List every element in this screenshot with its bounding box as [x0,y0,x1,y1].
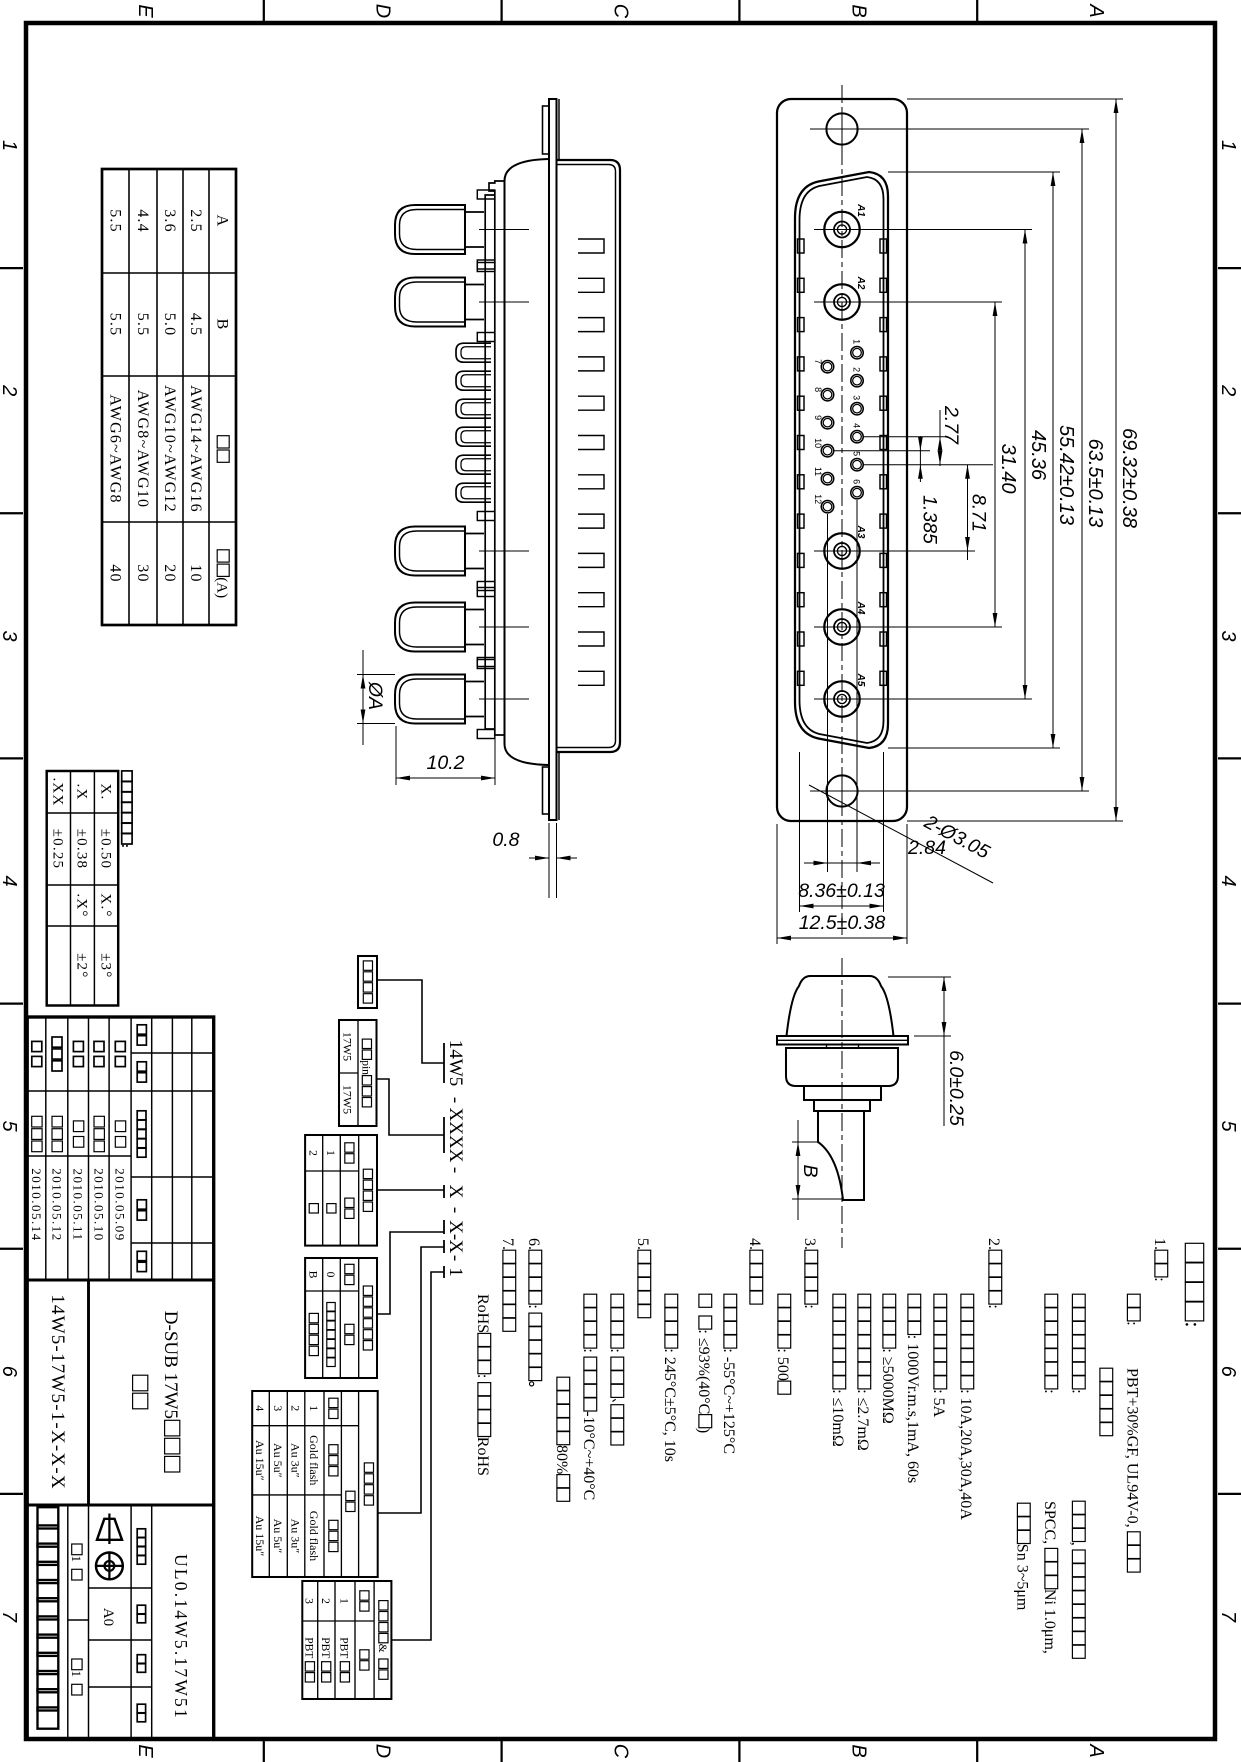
leader plating code [378,1247,444,1513]
svg-text:5.5: 5.5 [107,313,124,337]
svg-text:PBT: PBT [319,1637,331,1658]
dim 2.77 [938,405,962,466]
svg-text:5: 5 [1217,1121,1239,1133]
company name cell [38,1507,59,1729]
coax contact A3 [814,525,870,569]
svg-text:2010.05.14: 2010.05.14 [29,1168,44,1242]
contact detail body [786,1048,898,1111]
ordering code string 14W5 - XXXX - X - X-X- 1 [444,1040,466,1278]
svg-text:AWG8~AWG10: AWG8~AWG10 [134,390,151,509]
svg-text:12.5±0.38: 12.5±0.38 [799,912,886,934]
dim 12.5 [777,824,907,944]
svg-text:-: - [445,1167,466,1173]
svg-text:: 245°C±5°C, 10s: : 245°C±5°C, 10s [661,1348,678,1462]
svg-text:1: 1 [69,1671,84,1678]
small pins row 1-6 [851,339,863,499]
box plating code [252,1391,378,1577]
side view insulator block [485,159,548,765]
leader insulator material [391,1272,444,1640]
svg-text:3.: 3. [801,1238,818,1250]
dimension extension lines front view [833,99,1123,821]
svg-text:-10°C~+40°C: -10°C~+40°C [580,1411,597,1500]
dim 10.2 [396,726,495,785]
solder cup A2 [395,263,529,342]
svg-text:Au 3u″: Au 3u″ [289,1519,303,1554]
svg-text:1.: 1. [1151,1238,1168,1250]
svg-text:2: 2 [1217,384,1239,396]
svg-text:Au 5u″: Au 5u″ [271,1443,285,1478]
svg-text:7: 7 [1217,1611,1239,1623]
svg-text:5.0: 5.0 [161,313,178,337]
svg-text:2: 2 [289,1405,303,1411]
tolerance table [47,771,119,1006]
svg-text:A1: A1 [855,203,866,217]
svg-text:4: 4 [1217,875,1239,886]
side view flange plate [549,99,557,820]
svg-text:Gold flash: Gold flash [307,1511,321,1561]
svg-text:63.5±0.13: 63.5±0.13 [1084,439,1106,528]
svg-text:X.°: X.° [97,893,113,917]
product name cell [89,1280,182,1505]
svg-text:9: 9 [813,415,823,420]
svg-text:1: 1 [307,1405,321,1411]
svg-text:7: 7 [0,1611,20,1623]
svg-text::: : [119,844,134,848]
svg-text:4.4: 4.4 [134,209,151,233]
svg-text:4.5: 4.5 [187,313,204,337]
solder cup A5 [395,660,529,739]
svg-text:: 10A,20A,30A,40A: : 10A,20A,30A,40A [957,1389,974,1520]
svg-text::: : [1069,1389,1086,1393]
svg-text:1: 1 [324,1150,336,1156]
svg-text:12: 12 [813,494,823,504]
svg-text:31.40: 31.40 [997,444,1019,494]
svg-text:X: X [445,1185,466,1199]
svg-text:8: 8 [813,387,823,392]
leader mounting code [377,1232,444,1314]
contact detail mating hat [787,976,894,1036]
svg-text:X: X [445,1240,466,1254]
sheet count row [68,1505,89,1739]
shroud slot marks [798,239,887,685]
svg-text:1: 1 [445,1267,466,1277]
svg-text::: : [580,1348,597,1352]
svg-text::: : [801,1304,818,1308]
dim 69.32±0.38 [1114,99,1140,821]
svg-text:2.5: 2.5 [187,209,204,233]
svg-text:4: 4 [852,423,862,428]
svg-text:3: 3 [271,1405,285,1411]
svg-text:B: B [214,319,231,331]
svg-text:: 500: : 500 [774,1348,791,1380]
svg-text:2.: 2. [985,1238,1002,1250]
svg-text:Sn 3~5μm: Sn 3~5μm [1014,1544,1031,1611]
box series code [358,956,377,1008]
leader series code [377,980,444,1063]
svg-text:17W5: 17W5 [341,1085,355,1114]
svg-text::: : [1151,1277,1168,1281]
coax contact A2 [814,276,870,320]
mounting hole right (2-O3.05) [810,769,874,813]
svg-text:-: - [445,1255,466,1261]
svg-text:): ) [695,1428,712,1433]
svg-text:E: E [134,1744,156,1758]
svg-text:: -55°C~+125°C: : -55°C~+125°C [720,1348,737,1454]
svg-text:5.: 5. [634,1238,651,1250]
svg-text:17W5: 17W5 [341,1032,355,1061]
svg-text:1: 1 [69,1556,84,1563]
svg-text:8.36±0.13: 8.36±0.13 [798,880,885,902]
solder cup A3 [395,512,529,591]
svg-text:1: 1 [852,339,862,344]
svg-text:Ni 1.0μm,: Ni 1.0μm, [1041,1589,1058,1654]
dim 0.8 [492,823,577,898]
svg-text:: ≥5000MΩ: : ≥5000MΩ [879,1348,896,1423]
dim 31.40 [993,302,1019,627]
drawing number cell [152,1505,191,1739]
svg-text:4.: 4. [746,1238,763,1250]
svg-text:-: - [445,1207,466,1213]
svg-text:A2: A2 [855,276,866,290]
svg-text:1.385: 1.385 [919,495,941,544]
svg-text:5: 5 [852,451,862,456]
svg-text:.X°: .X° [74,893,90,917]
svg-text:,: , [1069,1542,1086,1546]
svg-text:: 5A: : 5A [930,1389,947,1417]
small solder cups [456,343,491,502]
svg-text:Au 15u″: Au 15u″ [253,1440,267,1481]
svg-text:11: 11 [813,467,823,476]
small pins row 7-12 [813,359,834,513]
revision table [27,1017,214,1280]
title block outline [27,1017,214,1739]
svg-text:55.42±0.13: 55.42±0.13 [1055,425,1077,525]
box product pin code [339,1020,377,1126]
svg-text:14W5: 14W5 [445,1040,466,1086]
svg-text:5: 5 [0,1121,20,1133]
svg-text:: ≤10mΩ: : ≤10mΩ [829,1389,846,1447]
svg-text:2.77: 2.77 [940,405,962,445]
svg-text:D: D [372,4,394,18]
dim 2.84 [804,500,946,872]
svg-text:10.2: 10.2 [427,752,465,774]
svg-text:B: B [799,1165,821,1178]
svg-text:8.71: 8.71 [968,494,990,532]
svg-text::: : [525,1304,542,1308]
dim 8.36 [798,752,885,912]
dim 63.5±0.13 [1080,129,1106,791]
svg-text:E: E [134,4,156,18]
contact detail flange plate [777,1036,908,1048]
svg-text:0: 0 [324,1272,336,1278]
svg-text:-: - [445,1097,466,1103]
svg-text:±0.25: ±0.25 [50,829,66,869]
dim 45.36 [1023,230,1049,700]
svg-text:Au 5u″: Au 5u″ [271,1519,285,1554]
svg-text:B: B [847,4,869,17]
svg-text:3.6: 3.6 [161,209,178,233]
svg-text:Gold flash: Gold flash [307,1435,321,1485]
contact detail centerline [841,958,843,1248]
svg-text:1: 1 [0,140,20,151]
svg-text:C: C [610,4,632,19]
svg-text:B: B [306,1271,318,1279]
coax contact A5 [814,673,870,717]
svg-text:80%: 80% [553,1445,570,1474]
dim 1.385 [918,436,941,544]
mounting hole left [810,107,874,151]
svg-text:10: 10 [187,564,204,582]
svg-text:2010.05.09: 2010.05.09 [113,1168,128,1242]
svg-text:A: A [214,215,231,228]
D-shroud outer outline [795,172,888,748]
svg-text:Au 3u″: Au 3u″ [289,1443,303,1478]
svg-text:D-SUB 17W5: D-SUB 17W5 [160,1311,181,1419]
svg-text:0.8: 0.8 [492,829,519,851]
svg-text:pin: pin [360,1060,372,1075]
svg-text:2010.05.12: 2010.05.12 [49,1168,64,1242]
svg-text:C: C [610,1744,632,1759]
svg-text:RoHS: RoHS [474,1294,491,1333]
front view centerline [841,85,843,935]
svg-text:: ≤2.7mΩ: : ≤2.7mΩ [854,1389,871,1451]
svg-text:69.32±0.38: 69.32±0.38 [1118,428,1140,528]
svg-text:30: 30 [134,564,151,582]
svg-text:±2°: ±2° [74,953,90,978]
svg-text:D: D [372,1744,394,1758]
svg-text:2010.05.11: 2010.05.11 [71,1168,86,1241]
side view shroud [557,99,621,820]
svg-text:A: A [1085,1743,1107,1757]
tolerance note title [119,771,134,848]
solder cup A4 [395,588,529,667]
svg-text:4: 4 [0,875,20,886]
svg-text:ØA: ØA [364,681,386,710]
coax contact A1 [814,203,870,247]
dim 8.71 [965,465,989,560]
box insulator material [302,1581,391,1699]
leader gender code [377,1189,444,1191]
svg-text:4: 4 [253,1405,267,1411]
svg-text:RoHS: RoHS [474,1437,491,1476]
svg-text:2: 2 [306,1150,318,1156]
svg-text:AWG10~AWG12: AWG10~AWG12 [161,385,178,513]
solder cup A1 [395,190,529,269]
svg-text:AWG6~AWG8: AWG6~AWG8 [107,394,124,503]
front view flange outline [777,99,907,821]
svg-text:PBT: PBT [303,1637,315,1658]
dim B [792,1120,843,1220]
contact detail wire barrel [818,1111,864,1200]
svg-text:&: & [376,1644,388,1653]
svg-text:5.5: 5.5 [107,209,124,233]
svg-text:3: 3 [852,395,862,400]
svg-text::: : [1181,1321,1206,1327]
dim OA [357,650,395,745]
svg-text:PBT+30%GF, UL94V-0,: PBT+30%GF, UL94V-0, [1124,1368,1141,1528]
svg-text::: : [474,1374,491,1378]
svg-text:6: 6 [852,479,862,484]
coax contact A4 [814,601,870,645]
svg-text:±0.50: ±0.50 [97,829,113,869]
svg-text:XXXX: XXXX [445,1108,466,1163]
svg-text:2010.05.10: 2010.05.10 [91,1168,106,1242]
leader product pin code [377,1079,445,1135]
technical requirement notes [474,1238,1205,1658]
svg-text:6.: 6. [525,1238,542,1250]
svg-text:B: B [847,1744,869,1757]
svg-text:6.0±0.25: 6.0±0.25 [945,1050,967,1126]
svg-text:X.: X. [97,784,113,801]
svg-text:6: 6 [1217,1366,1239,1378]
svg-text:.X: .X [74,784,90,801]
svg-text:3: 3 [303,1598,315,1604]
svg-text:1: 1 [1217,140,1239,151]
first angle projection symbol [95,1514,124,1581]
svg-text:1: 1 [338,1598,350,1604]
svg-text:UL0.14W5.17W51: UL0.14W5.17W51 [171,1554,191,1720]
svg-text:14W5-17W5-1-X-X-X: 14W5-17W5-1-X-X-X [47,1294,68,1490]
svg-text:AWG14~AWG16: AWG14~AWG16 [187,385,204,513]
svg-text:10: 10 [813,438,823,448]
svg-text:±0.38: ±0.38 [74,829,90,869]
svg-text:2: 2 [319,1598,331,1604]
svg-text:5.5: 5.5 [134,313,151,337]
svg-text:3: 3 [1217,630,1239,641]
svg-text::: : [1041,1389,1058,1393]
box mounting code [305,1258,377,1378]
svg-text::: : [985,1304,1002,1308]
svg-text::: : [1124,1321,1141,1325]
svg-text:A0: A0 [100,1608,116,1626]
wire gauge parameter table [102,169,236,625]
box gender code [305,1135,377,1246]
side view contact slots [578,239,604,685]
svg-text:40: 40 [107,564,124,582]
side view rivet tabs [543,106,550,814]
svg-text:A: A [1085,3,1107,17]
dim 6.0 [888,977,967,1126]
svg-text:7: 7 [813,359,823,364]
svg-text:2: 2 [0,384,20,396]
svg-text:.XX: .XX [50,777,66,806]
svg-text:20: 20 [161,564,178,582]
svg-text:±3°: ±3° [97,953,113,978]
svg-text:PBT: PBT [338,1637,350,1658]
svg-text:X: X [445,1220,466,1234]
svg-text:6: 6 [0,1366,20,1378]
svg-text:SPCC,: SPCC, [1041,1501,1058,1544]
projection/rev/weight/scale label row [89,1505,152,1739]
svg-text:(A): (A) [214,577,230,598]
svg-text:45.36: 45.36 [1027,430,1049,481]
svg-text::: : [607,1348,624,1352]
svg-text:Au 15u″: Au 15u″ [253,1516,267,1557]
svg-text:2: 2 [852,367,862,372]
svg-text:: 1000Vr.m.s,1mA, 60s: : 1000Vr.m.s,1mA, 60s [904,1335,921,1483]
svg-text:3: 3 [0,630,20,641]
svg-text:: ≤93%(40°C: : ≤93%(40°C [695,1329,712,1414]
dim 55.42±0.13 [1051,172,1077,748]
svg-text:7.: 7. [499,1238,516,1250]
callout 2-O3.05 leader [809,785,993,883]
part number cell [47,1294,68,1490]
